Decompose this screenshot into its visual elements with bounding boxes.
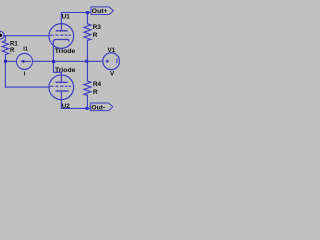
wire R4 bottom lead	[86, 95, 88, 108]
wire U1 grid row	[4, 35, 49, 37]
svg-text:Triode: Triode	[55, 48, 76, 55]
resistor R4	[84, 81, 91, 96]
svg-text:Out-: Out-	[91, 104, 105, 111]
node junction bottom	[86, 107, 89, 110]
svg-text:Triode: Triode	[55, 67, 76, 74]
node junction mid-center	[52, 60, 55, 63]
voltage source V1	[103, 53, 120, 70]
node junction mid-right	[85, 60, 88, 63]
triode U2	[49, 75, 74, 100]
svg-text:I1: I1	[23, 47, 28, 53]
port tag Out-	[90, 103, 112, 111]
wire mid rail left	[5, 60, 16, 62]
wire mid rail I1 to center junction	[32, 60, 53, 62]
wire R1 top lead	[4, 36, 6, 41]
wire bottom rail	[61, 107, 90, 109]
svg-text:Out+: Out+	[92, 8, 108, 15]
wire U2 grid row	[5, 86, 49, 88]
port tag Out+	[91, 7, 113, 15]
svg-text:U2: U2	[62, 103, 71, 110]
svg-text:R4: R4	[93, 81, 102, 88]
wire U1 cathode lead down to junction	[52, 41, 54, 61]
svg-text:V1: V1	[108, 47, 116, 54]
port source symbol at left edge	[0, 31, 4, 39]
wire R3 bottom lead	[86, 40, 88, 61]
wire U2 cathode lead down	[60, 91, 62, 108]
svg-text:R: R	[93, 89, 98, 96]
svg-text:R: R	[93, 32, 98, 39]
svg-text:U1: U1	[62, 14, 71, 21]
triode U1	[49, 24, 74, 49]
wire R3 top lead	[86, 13, 88, 24]
wire R4 top lead	[86, 61, 88, 81]
resistor R1	[2, 41, 8, 55]
svg-text:R: R	[10, 48, 15, 54]
wire top rail	[61, 12, 89, 14]
resistor R3	[84, 24, 91, 41]
wire center junction down and jog to U2 plate	[54, 61, 62, 82]
wire U1 plate lead	[60, 13, 62, 31]
wire mid rail R column to V1	[87, 60, 103, 62]
wire left column down	[4, 61, 6, 87]
svg-text:R3: R3	[93, 24, 102, 31]
node junction top	[86, 11, 89, 14]
wire mid rail center junction to R column	[54, 60, 88, 62]
svg-text:R1: R1	[10, 41, 18, 47]
wire R1 bottom lead	[4, 55, 6, 62]
node junction mid-left	[4, 60, 7, 63]
current source I1	[17, 53, 33, 69]
